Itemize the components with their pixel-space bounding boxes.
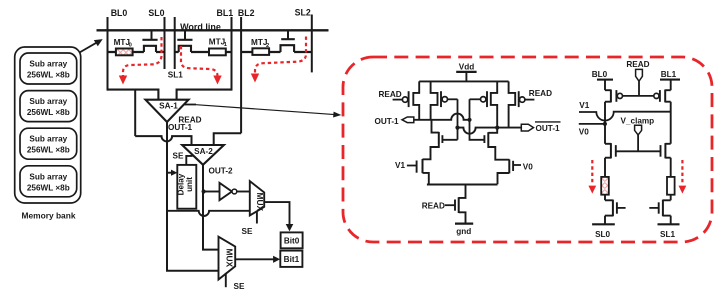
svg-text:V0: V0	[523, 162, 533, 171]
READ port arrow down	[636, 69, 643, 96]
node dot vertical2-lineA	[467, 118, 471, 122]
wire tail rail	[427, 184, 498, 186]
wire BL2 to SA-2 right input	[214, 133, 241, 145]
transistor P6 BL1 pass	[654, 90, 671, 103]
svg-text:BL1: BL1	[661, 70, 677, 79]
resistor right	[667, 177, 675, 195]
svg-text:256WL ×8b: 256WL ×8b	[27, 108, 70, 117]
gate P1 READ left	[393, 91, 409, 107]
svg-text:SE: SE	[234, 282, 245, 291]
wire cell2	[175, 51, 232, 53]
sub array 2	[20, 91, 77, 122]
svg-text:BL1: BL1	[216, 8, 233, 18]
resistor MTJ left (hatched)	[601, 177, 609, 195]
OUT-1bar right label	[535, 122, 561, 133]
svg-text:Sub array: Sub array	[29, 60, 67, 69]
SL1 terminal	[658, 224, 680, 239]
gnd	[455, 224, 473, 236]
transistor N8 bottom left	[605, 200, 626, 217]
svg-text:gnd: gnd	[456, 227, 471, 236]
dashed detail box	[343, 57, 712, 242]
red arrow left	[588, 160, 596, 194]
svg-text:unit: unit	[185, 177, 194, 192]
wire OUT-2 to inverter	[204, 191, 220, 193]
svg-text:SL0: SL0	[595, 230, 610, 239]
OUT-1 left port arrow	[402, 117, 414, 123]
wire cross-couple vertical 2	[470, 99, 485, 140]
svg-text:Sub array: Sub array	[29, 172, 67, 181]
node SL0	[148, 8, 164, 69]
Bit1 box	[280, 251, 302, 267]
node dot lineB right	[495, 126, 499, 130]
svg-text:Bit1: Bit1	[284, 255, 300, 264]
svg-text:SA-1: SA-1	[159, 101, 178, 110]
svg-text:Sub array: Sub array	[29, 135, 67, 144]
gate P3 cross-coupled	[470, 91, 488, 107]
wire delayed branch to MUX1 with hop	[167, 211, 250, 216]
wire SE MUX2	[225, 273, 227, 287]
mux MUX1	[250, 181, 265, 215]
svg-text:READ: READ	[529, 89, 552, 98]
svg-text:BL0: BL0	[111, 8, 128, 18]
svg-text:SL2: SL2	[295, 8, 311, 18]
wire cell3	[241, 51, 312, 53]
arrow memory bank to array	[80, 39, 103, 52]
wire node B OUT-1bar line with hop	[458, 128, 522, 134]
svg-text:V1: V1	[579, 101, 589, 110]
svg-text:V0: V0	[579, 128, 589, 137]
svg-text:READ: READ	[379, 90, 402, 99]
inverter	[220, 183, 237, 200]
node BL1 right	[660, 70, 680, 90]
node BL2	[238, 8, 255, 133]
Vdd supply	[456, 63, 476, 82]
node SL2	[295, 8, 312, 73]
sub array 3	[20, 128, 77, 159]
wire BL0 funnel	[108, 90, 159, 100]
wire OUT-2 net	[203, 165, 219, 250]
svg-text:V_clamp: V_clamp	[621, 116, 655, 125]
svg-text:V1: V1	[395, 161, 405, 170]
delay unit	[177, 165, 197, 209]
transistor cell2	[177, 30, 192, 52]
node SL1	[168, 17, 183, 80]
svg-text:MTJ: MTJ	[251, 38, 267, 47]
sub array 1	[20, 53, 77, 84]
node dot vertical1-lineB	[455, 126, 459, 130]
svg-text:SL1: SL1	[168, 71, 183, 80]
svg-text:Vdd: Vdd	[459, 63, 474, 72]
svg-text:MTJ: MTJ	[209, 37, 225, 46]
MTJ1	[209, 37, 228, 55]
arrow into delay unit	[167, 170, 177, 176]
transistor cell3	[281, 30, 295, 52]
transistor N6 clamp left	[605, 143, 616, 158]
wire MUX2 to Bit1	[235, 256, 280, 263]
V_clamp port arrow down	[635, 125, 642, 151]
transistor N2 middle right	[484, 128, 509, 160]
svg-text:SL1: SL1	[660, 230, 675, 239]
Bit0 box	[281, 232, 303, 248]
wire OUT-1 net	[167, 122, 219, 271]
svg-text:SE: SE	[242, 227, 253, 236]
svg-text:OUT-1: OUT-1	[375, 117, 400, 126]
wire V0 to BL0	[579, 123, 605, 125]
wire inverter to MUX1	[237, 191, 250, 193]
mux MUX2	[219, 237, 236, 280]
svg-text:256WL ×8b: 256WL ×8b	[27, 183, 70, 192]
svg-text:256WL ×8b: 256WL ×8b	[27, 146, 70, 155]
transistor N9 bottom right	[649, 200, 670, 217]
transistor pair P1 P2 shared channel (left cross)	[413, 81, 437, 119]
svg-text:Bit0: Bit0	[284, 237, 300, 246]
svg-text:READ: READ	[422, 202, 445, 211]
wire V1 to BL1 with hop	[579, 112, 671, 121]
wire SE MUX1	[256, 211, 258, 224]
wire Vdd rail	[419, 80, 508, 82]
SL0 terminal	[592, 224, 615, 239]
pointer line to detail box	[196, 105, 341, 118]
wire shared READ gate	[623, 95, 654, 97]
transistor N3 V1	[407, 159, 429, 184]
wire cell1	[108, 51, 165, 53]
svg-text:OUT-2: OUT-2	[209, 167, 234, 176]
red current path cell1	[119, 37, 162, 85]
svg-text:OUT-1: OUT-1	[168, 123, 193, 132]
wire node A OUT-1 line with hop	[414, 114, 470, 120]
svg-text:SE: SE	[173, 151, 184, 160]
svg-text:256WL ×8b: 256WL ×8b	[27, 71, 70, 80]
wire BL1 column	[670, 102, 672, 225]
wire BL1 funnel	[177, 90, 232, 100]
red arrow right	[679, 160, 687, 194]
svg-text:SA-2: SA-2	[194, 147, 213, 156]
node OUT-2 junction	[202, 189, 206, 193]
svg-text:Sub array: Sub array	[29, 97, 67, 106]
svg-text:MUX: MUX	[225, 248, 235, 267]
node BL1	[216, 8, 233, 91]
gate P4 READ right	[519, 91, 535, 107]
op-amp SA-2	[182, 145, 224, 165]
word line	[97, 22, 329, 32]
op-amp SA-1	[146, 100, 189, 122]
wire READ stub SA-1	[184, 104, 196, 106]
svg-text:SL0: SL0	[148, 8, 164, 18]
node dot V0-BL0	[603, 122, 607, 126]
svg-text:BL2: BL2	[238, 8, 255, 18]
svg-text:BL0: BL0	[592, 70, 608, 79]
svg-text:MTJ: MTJ	[114, 38, 130, 47]
transistor pair P3 P4 shared channel (right cross)	[491, 81, 515, 127]
svg-text:READ: READ	[626, 60, 649, 69]
transistor N7 clamp right	[661, 143, 671, 158]
memory bank box	[15, 47, 81, 203]
transistor cell1	[142, 30, 157, 52]
svg-text:OUT-1: OUT-1	[536, 124, 561, 133]
red current path cell3	[251, 37, 306, 83]
node BL0 right	[592, 70, 613, 90]
sub array 4	[20, 166, 77, 197]
red current path cell2	[181, 46, 222, 85]
node BL0	[108, 8, 128, 91]
svg-text:MUX: MUX	[255, 192, 265, 211]
MTJ0	[114, 38, 133, 56]
wire BL0 column	[604, 102, 606, 225]
wire SE to SA-2	[186, 156, 192, 165]
wire SA-2 left input with hop	[135, 136, 191, 145]
wire funnel tap to SA-2	[134, 90, 136, 137]
transistor N5 tail READ	[445, 185, 466, 224]
wire clamp shared gate	[616, 150, 661, 152]
MTJ2	[251, 38, 269, 55]
transistor N1 middle left	[423, 120, 443, 160]
gate P2 cross-coupled	[441, 91, 458, 107]
transistor P5 BL0 pass	[605, 90, 623, 103]
transistor N4 V0	[498, 159, 522, 184]
svg-text:Memory bank: Memory bank	[22, 211, 76, 221]
OUT-1bar right port arrow	[521, 124, 533, 131]
wire MUX1 to Bit0	[264, 202, 293, 231]
wire cross-couple vertical 1	[443, 99, 458, 140]
